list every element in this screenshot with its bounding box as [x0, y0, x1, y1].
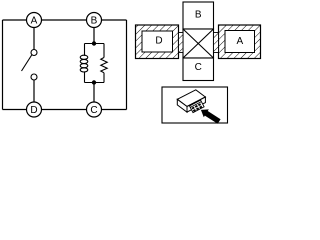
switch lower contact — [31, 74, 37, 80]
terminal B — [87, 13, 102, 28]
relay body right face — [187, 97, 205, 112]
svg-text:D: D — [30, 105, 37, 116]
svg-text:A: A — [31, 16, 38, 27]
right neck hatched — [214, 33, 219, 53]
wire bottom-left segment — [3, 109, 27, 111]
wire bottom-right segment — [102, 109, 127, 111]
svg-text:C: C — [195, 62, 202, 73]
relay body left face — [177, 99, 187, 112]
svg-text:C: C — [90, 105, 97, 116]
wire to coil — [84, 44, 86, 56]
wire coil to bottom bar — [84, 71, 86, 82]
wire top bar — [85, 43, 105, 45]
wire A to switch — [33, 28, 35, 50]
wire B to node — [93, 28, 95, 44]
svg-text:B: B — [91, 16, 98, 27]
arrow pointing at connector — [198, 106, 221, 126]
svg-text:A: A — [236, 36, 243, 47]
resistor R — [101, 58, 107, 73]
wire top-middle segment — [42, 19, 87, 21]
terminal D — [27, 102, 42, 117]
wire top-right segment — [102, 19, 127, 21]
wire bottom-middle segment — [42, 109, 87, 111]
relay pin-face box C — [183, 58, 214, 81]
switch blade — [22, 55, 32, 71]
svg-text:B: B — [195, 9, 202, 20]
wire resistor to bottom bar — [103, 73, 105, 83]
wire node to C — [93, 83, 95, 103]
pin window A — [225, 31, 255, 53]
relay body top face — [177, 90, 205, 107]
relay pin-face center square with X — [183, 29, 214, 58]
pin window D — [142, 31, 173, 52]
wire bottom bar — [85, 82, 105, 84]
wire right edge — [126, 20, 128, 110]
relay icon frame — [162, 87, 228, 123]
terminal A — [27, 13, 42, 28]
left neck hatched — [179, 33, 184, 53]
terminal C — [87, 102, 102, 117]
node top junction — [92, 41, 96, 45]
wire to resistor — [103, 44, 105, 58]
wire switch to D — [33, 80, 35, 102]
node bottom junction — [92, 80, 96, 84]
relay connector block — [190, 100, 205, 113]
left hatched flange ring — [136, 25, 179, 59]
wire left edge — [2, 20, 4, 110]
switch upper contact — [31, 50, 37, 56]
right hatched flange ring — [219, 25, 261, 59]
relay pin-face box B — [183, 2, 214, 29]
coil L (relay winding) — [80, 55, 88, 72]
svg-text:D: D — [155, 36, 162, 47]
wire top-left segment — [3, 19, 27, 21]
